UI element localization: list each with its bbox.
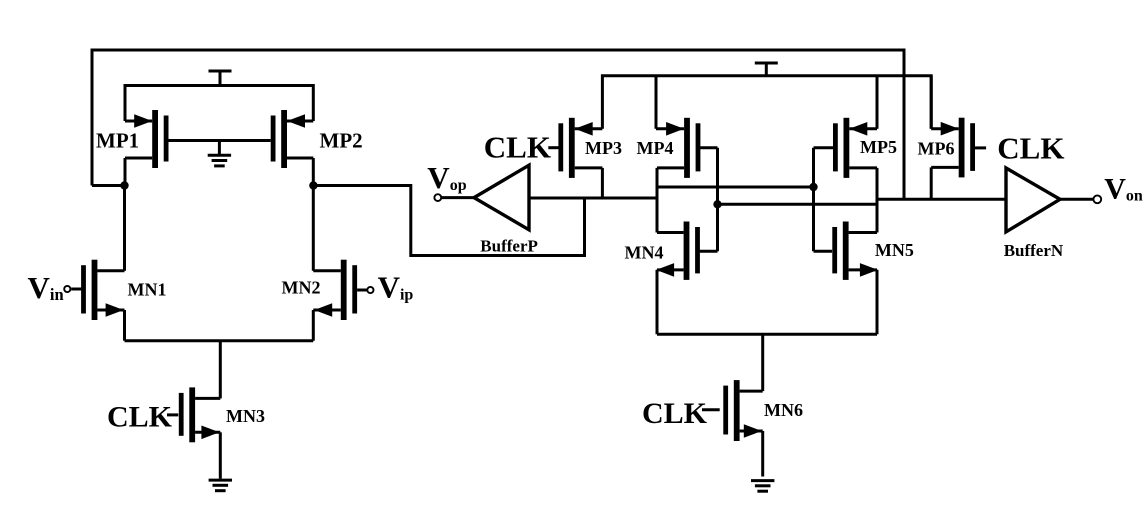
svg-text:CLK: CLK [642, 397, 708, 430]
svg-text:MP5: MP5 [860, 137, 897, 157]
svg-text:CLK: CLK [997, 131, 1064, 166]
svg-text:MP1: MP1 [96, 129, 139, 153]
svg-text:CLK: CLK [484, 130, 551, 165]
svg-text:MP6: MP6 [918, 139, 955, 159]
svg-text:MN1: MN1 [128, 279, 167, 299]
svg-text:MN4: MN4 [625, 243, 664, 263]
svg-text:MP3: MP3 [585, 138, 622, 158]
svg-text:MN6: MN6 [764, 400, 803, 420]
svg-text:BufferN: BufferN [1004, 241, 1064, 260]
svg-text:MP2: MP2 [320, 129, 363, 153]
svg-text:BufferP: BufferP [480, 236, 538, 255]
svg-text:CLK: CLK [107, 401, 173, 434]
svg-text:MN2: MN2 [282, 277, 321, 297]
svg-text:MN5: MN5 [875, 240, 914, 260]
svg-text:MP4: MP4 [637, 138, 674, 158]
svg-text:MN3: MN3 [226, 406, 265, 426]
